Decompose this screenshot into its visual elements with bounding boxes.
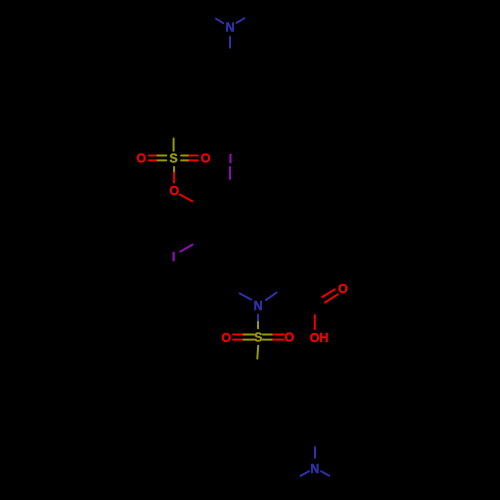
wire S1=O1b double bond lower line bbox=[181, 159, 189, 161]
wire N2-S2 bond bbox=[257, 315, 259, 322]
svg-text:S: S bbox=[254, 331, 262, 345]
svg-text:I: I bbox=[229, 152, 232, 166]
wire S2=O2b double bond upper line bbox=[263, 334, 274, 336]
svg-text:O: O bbox=[169, 184, 179, 198]
wire O2a=S2 double bond upper line bbox=[233, 334, 244, 336]
wire CH2-N2 stub bbox=[240, 293, 252, 299]
wire ring-N3 stub bbox=[314, 447, 316, 458]
wire O2a=S2 double bond lower line bbox=[233, 339, 244, 341]
svg-text:O: O bbox=[201, 152, 211, 166]
svg-text:N: N bbox=[310, 462, 319, 476]
svg-text:N: N bbox=[254, 299, 263, 313]
svg-text:N: N bbox=[225, 21, 234, 35]
wire N1-CH3 right stub bbox=[237, 18, 245, 23]
wire N3-CH3 right stub bbox=[321, 471, 329, 475]
wire N3-CH3 left stub bbox=[301, 471, 309, 476]
svg-text:O: O bbox=[136, 152, 146, 166]
wire O1c-ring stub bbox=[180, 195, 193, 202]
svg-text:O: O bbox=[338, 282, 348, 296]
svg-text:O: O bbox=[285, 331, 295, 345]
wire C=O3a double bond line 1 bbox=[322, 289, 335, 297]
wire S1=O1a double bond lower line bbox=[149, 159, 158, 161]
wire I1-ring stub bbox=[229, 167, 231, 179]
wire S2-ring stub (below S) bbox=[256, 346, 259, 359]
svg-text:S: S bbox=[169, 152, 177, 166]
wire S1=O1b double bond upper line bbox=[181, 155, 189, 157]
wire N1-CH3 left stub bbox=[216, 19, 223, 24]
wire N2-CH stub bbox=[266, 293, 277, 300]
wire C-OH bond stub bbox=[314, 315, 316, 329]
wire S2=O2b double bond lower line bbox=[263, 339, 274, 341]
wire N1-ring stub bbox=[229, 37, 231, 48]
wire C=O3a double bond line 2 bbox=[325, 294, 338, 302]
svg-text:I: I bbox=[172, 250, 175, 264]
wire I2-ring stub bbox=[180, 245, 192, 252]
svg-text:OH: OH bbox=[310, 331, 329, 345]
wire S1-ring stub (above S) bbox=[173, 139, 175, 151]
wire S1=O1a double bond upper line bbox=[149, 155, 158, 157]
svg-text:O: O bbox=[221, 331, 231, 345]
wire S1-O1c ester bond bbox=[173, 167, 175, 173]
